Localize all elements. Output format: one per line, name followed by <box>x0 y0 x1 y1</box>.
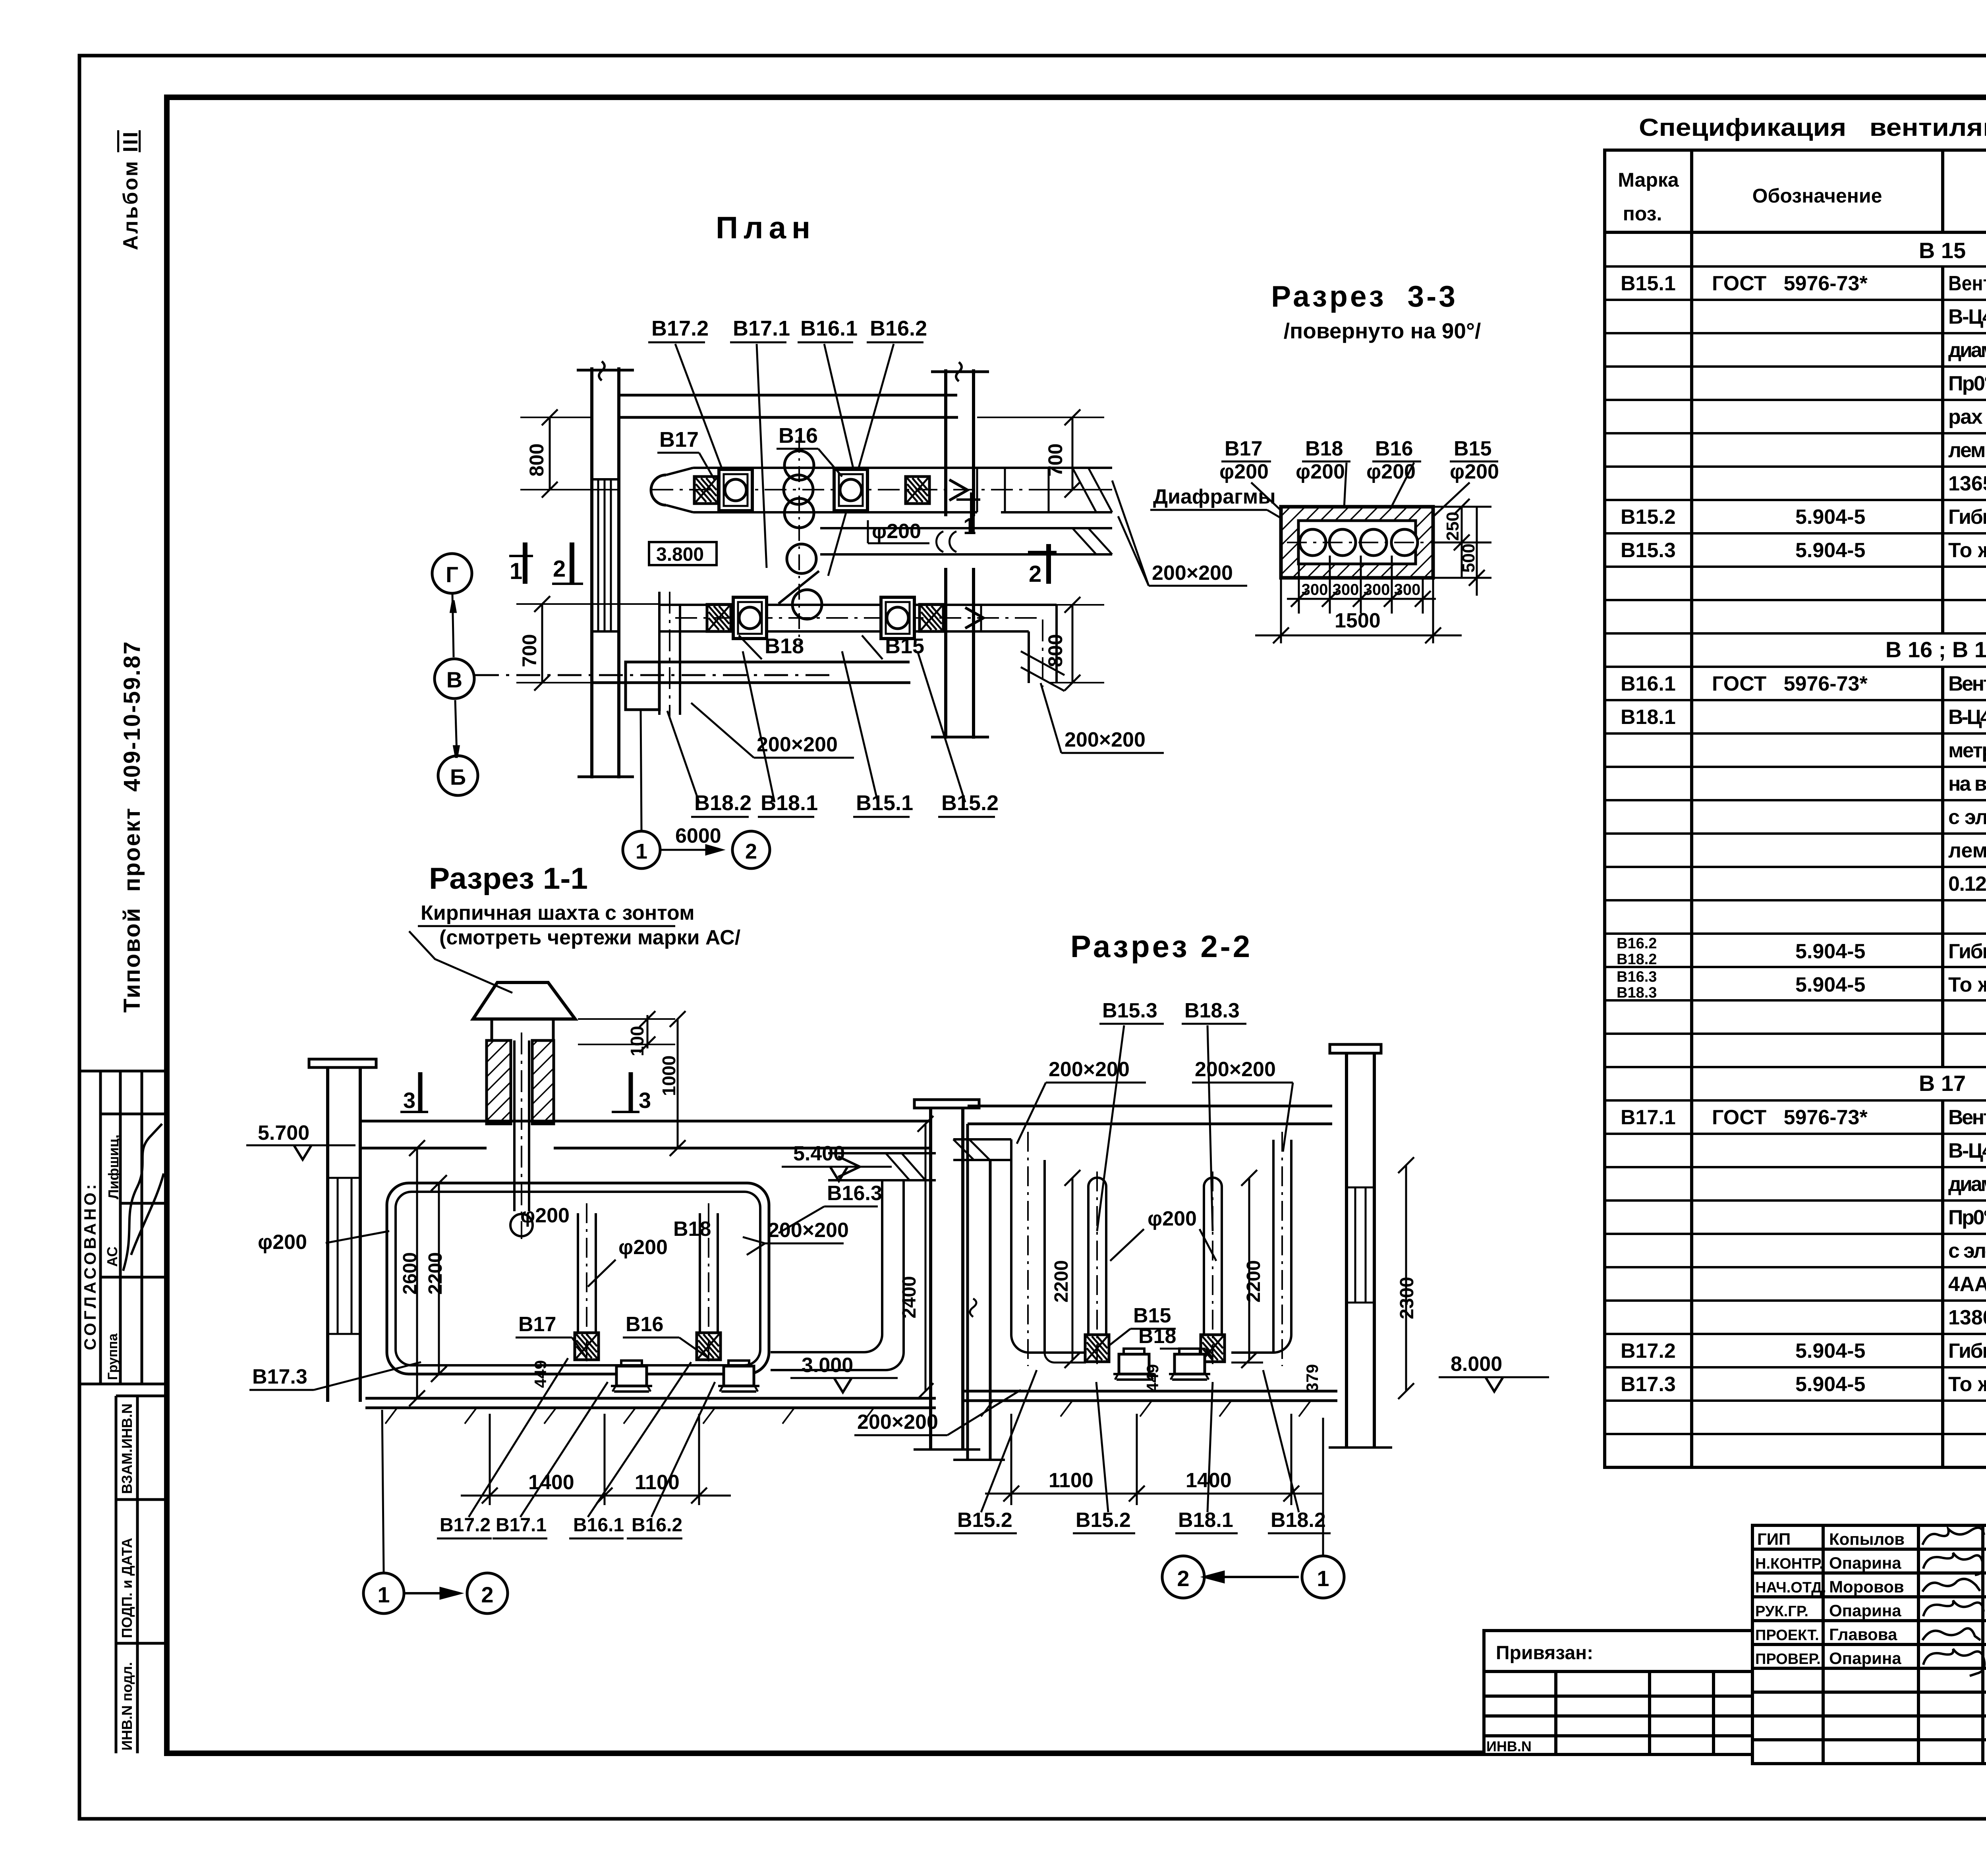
svg-text:φ200: φ200 <box>872 520 921 543</box>
svg-text:В16: В16 <box>1375 437 1413 460</box>
svg-text:НАЧ.ОТД.: НАЧ.ОТД. <box>1755 1579 1826 1596</box>
svg-text:3: 3 <box>403 1088 415 1113</box>
svg-text:Спецификация вентиляционных: Спецификация вентиляционных установок <box>1639 114 1986 141</box>
svg-text:Привязан:: Привязан: <box>1496 1642 1593 1664</box>
svg-text:В18.3: В18.3 <box>1184 999 1240 1022</box>
section 1-1 duct loop inner <box>396 1192 760 1365</box>
svg-text:В-Ц4-70-2.5-01А исп.1,диа-: В-Ц4-70-2.5-01А исп.1,диа- <box>1948 706 1986 729</box>
svg-text:Лифшиц,: Лифшиц, <box>105 1135 122 1199</box>
svg-text:ПРОЕКТ.: ПРОЕКТ. <box>1755 1627 1819 1644</box>
plan flexible insert B17.2 <box>694 477 718 504</box>
svg-text:В18.1: В18.1 <box>1178 1509 1233 1532</box>
svg-text:1: 1 <box>510 558 522 584</box>
plan flow arrow upper duct <box>949 480 968 500</box>
svg-text:В16: В16 <box>779 424 818 448</box>
section 2-2 dims 2400 2200 2200 2300 <box>918 1116 1414 1399</box>
section 2-2 right vertical duct <box>1231 1132 1291 1366</box>
plan fan B17 <box>719 469 752 511</box>
svg-text:рах с электродвигате-: рах с электродвигате- <box>1948 405 1986 428</box>
svg-text:Разрез 3-3: Разрез 3-3 <box>1271 280 1458 313</box>
svg-text:В18.1: В18.1 <box>1621 706 1676 729</box>
svg-text:250: 250 <box>1443 512 1462 541</box>
svg-text:СОГЛАСОВАНО:: СОГЛАСОВАНО: <box>81 1181 99 1350</box>
svg-text:В-Ц4-70-3.15-03А исп.1,: В-Ц4-70-3.15-03А исп.1, <box>1948 305 1986 328</box>
svg-text:В15: В15 <box>1454 437 1491 460</box>
svg-text:В16: В16 <box>626 1313 663 1336</box>
svg-text:Марка: Марка <box>1618 169 1679 191</box>
section 2-2 bottom labels <box>957 1509 1326 1532</box>
svg-text:Гибкая вставка ВВ17: Гибкая вставка ВВ17 <box>1948 940 1986 963</box>
svg-text:Альбом III: Альбом III <box>119 130 142 250</box>
section 3-3 dims 250 500 <box>1433 499 1491 596</box>
svg-text:Пр0° на виброизолято-: Пр0° на виброизолято- <box>1948 372 1986 395</box>
svg-text:Разрез 1-1: Разрез 1-1 <box>429 862 588 896</box>
svg-text:В15.3: В15.3 <box>1102 999 1157 1022</box>
plan labels B17 B16 B18 B15 <box>659 424 924 658</box>
plan flexible insert B18.2 <box>707 604 731 631</box>
svg-text:4АА63А4 0.25 кВт,: 4АА63А4 0.25 кВт, <box>1948 1273 1986 1296</box>
section 1-1 duct loop outer <box>387 1183 769 1374</box>
svg-text:φ200: φ200 <box>1296 460 1345 483</box>
section 2-2 candle duct right <box>1204 1172 1222 1366</box>
svg-text:300: 300 <box>1394 581 1421 598</box>
svg-text:В16.2: В16.2 <box>632 1515 682 1536</box>
section 1-1 fan motor right <box>718 1361 759 1392</box>
left stamp: СОГЛАСОВАНО box <box>81 1071 167 1384</box>
title block: Привязан box <box>1484 1631 1752 1754</box>
section 1-1 right exit duct <box>771 1153 936 1370</box>
svg-text:В 15: В 15 <box>1919 238 1966 263</box>
svg-text:В18: В18 <box>1138 1325 1176 1348</box>
svg-text:Кирпичная шахта с зонтом: Кирпичная шахта с зонтом <box>421 901 695 924</box>
svg-text:1100: 1100 <box>635 1471 680 1494</box>
specification table grid <box>1605 150 1986 1467</box>
specification table row lines <box>1605 266 1986 1434</box>
svg-text:В18.1: В18.1 <box>761 791 818 815</box>
svg-text:2200: 2200 <box>1243 1260 1264 1303</box>
svg-text:/повернуто на 90°/: /повернуто на 90°/ <box>1284 318 1481 343</box>
svg-text:В16.1: В16.1 <box>800 317 858 340</box>
plan duct centerlines <box>651 490 1112 719</box>
svg-text:В15.2: В15.2 <box>957 1509 1012 1532</box>
plan duct joint ticks <box>977 468 1049 631</box>
svg-text:2: 2 <box>481 1582 493 1607</box>
plan dim 800 left <box>520 409 620 498</box>
svg-text:В15.3: В15.3 <box>1621 539 1676 562</box>
svg-text:лем 4АА56А4: лем 4АА56А4 <box>1948 839 1986 862</box>
svg-text:(смотреть чертежи марки АС/: (смотреть чертежи марки АС/ <box>439 926 740 949</box>
svg-text:0.12 кВт, 1375 об/мин: 0.12 кВт, 1375 об/мин <box>1948 872 1986 896</box>
svg-text:В15.1: В15.1 <box>1621 272 1676 295</box>
svg-text:379: 379 <box>1303 1364 1321 1392</box>
section 1-1 right column <box>914 1100 980 1449</box>
section 1-1 umbrella cap <box>473 982 575 1019</box>
svg-text:метр колеса Дном, 10°: метр колеса Дном, 10° <box>1948 739 1986 762</box>
svg-text:лем 4АА63А4 0.37 кВт: лем 4АА63А4 0.37 кВт <box>1948 439 1986 462</box>
svg-text:ПРОВЕР.: ПРОВЕР. <box>1755 1651 1821 1668</box>
svg-text:В15.2: В15.2 <box>941 791 999 815</box>
section 2-2 floor <box>962 1391 1337 1417</box>
svg-text:ПОДП. и ДАТА: ПОДП. и ДАТА <box>119 1538 135 1638</box>
svg-text:1100: 1100 <box>1049 1469 1093 1492</box>
svg-text:РУК.ГР.: РУК.ГР. <box>1755 1603 1808 1620</box>
section 3-3 labels B17 B18 B16 B15 with f200 <box>1219 437 1499 483</box>
svg-text:В18.2: В18.2 <box>694 791 752 815</box>
svg-text:ГИП: ГИП <box>1757 1530 1791 1548</box>
svg-text:700: 700 <box>518 634 541 667</box>
title block: signatures <box>1922 1528 1984 1676</box>
svg-text:2: 2 <box>1177 1566 1189 1591</box>
svg-text:В 17: В 17 <box>1919 1071 1966 1096</box>
plan level box 3.800 <box>649 542 717 565</box>
svg-text:В17.2: В17.2 <box>440 1515 491 1536</box>
svg-text:В17: В17 <box>1225 437 1262 460</box>
svg-text:1: 1 <box>636 840 647 863</box>
svg-text:6000: 6000 <box>675 824 721 847</box>
svg-text:с электродвигате -: с электродвигате - <box>1948 806 1986 829</box>
svg-text:В18: В18 <box>765 634 804 658</box>
section 3-3 dims 300x4 <box>1287 556 1436 614</box>
svg-text:ИНВ.N подл.: ИНВ.N подл. <box>119 1662 135 1751</box>
svg-text:Гибкая вставка ВВ18: Гибкая вставка ВВ18 <box>1948 506 1986 529</box>
svg-text:Н.КОНТР.: Н.КОНТР. <box>1755 1556 1824 1572</box>
specification table header text <box>1618 164 1986 225</box>
plan flexible insert B16.2 <box>906 477 929 504</box>
svg-text:2: 2 <box>553 556 566 582</box>
section 2-2 left wall <box>953 1124 1005 1460</box>
svg-text:ГОСТ 5976-73*: ГОСТ 5976-73* <box>1712 272 1868 295</box>
section 3-3 dim 1500 <box>1255 578 1462 643</box>
plan flexible insert B15.2 <box>920 604 943 631</box>
svg-text:В15.1: В15.1 <box>856 791 913 815</box>
svg-text:449: 449 <box>1143 1364 1162 1392</box>
svg-text:1380 об/мин: 1380 об/мин <box>1948 1306 1986 1329</box>
svg-text:3.000: 3.000 <box>802 1354 853 1377</box>
svg-text:Вентилятор радиальный: Вентилятор радиальный <box>1948 1106 1986 1129</box>
plan lower duct run B18-B15 <box>659 592 1064 715</box>
leaders from labels down into drawing <box>675 344 731 492</box>
svg-text:1: 1 <box>1317 1566 1329 1591</box>
svg-text:800: 800 <box>1044 634 1066 667</box>
svg-text:100: 100 <box>627 1026 647 1056</box>
svg-text:В17.3: В17.3 <box>1621 1373 1676 1396</box>
section 1-1 brick shaft walls <box>487 1040 511 1124</box>
plan fan B16 <box>834 469 867 511</box>
svg-text:В 16 ; В 18: В 16 ; В 18 <box>1886 637 1986 662</box>
svg-text:φ200: φ200 <box>1366 460 1416 483</box>
section 2-2 ceiling slab <box>968 1106 1332 1124</box>
svg-text:План: План <box>716 210 816 245</box>
svg-text:диаметр колеса1.05Дном,: диаметр колеса1.05Дном, <box>1948 339 1986 362</box>
svg-text:5.904-5: 5.904-5 <box>1795 1339 1865 1363</box>
plan left column <box>577 361 634 778</box>
plan axis circles 1 2 with 6000 dim <box>623 711 770 869</box>
section 1-1 bottom dims 1400 1100 <box>461 1414 731 1505</box>
svg-text:300: 300 <box>1364 581 1390 598</box>
svg-text:Гибкая вставка ВВ18: Гибкая вставка ВВ18 <box>1948 1339 1986 1363</box>
svg-text:200×200: 200×200 <box>757 733 838 756</box>
svg-text:1: 1 <box>377 1582 390 1607</box>
section 2-2 right column <box>1329 1044 1392 1448</box>
section 3-3 duct openings circles <box>1287 529 1446 556</box>
specification table body text <box>1617 238 1986 1396</box>
svg-text:8.000: 8.000 <box>1451 1353 1502 1376</box>
svg-text:В16.1: В16.1 <box>1621 672 1676 695</box>
svg-text:В17.1: В17.1 <box>1621 1106 1676 1129</box>
section 1-1 fan motor left <box>611 1361 652 1392</box>
svg-text:Типовой проект 409-10-59.87: Типовой проект 409-10-59.87 <box>119 641 145 1013</box>
section 2-2 fan motors <box>1113 1349 1155 1380</box>
svg-text:449: 449 <box>531 1360 550 1388</box>
svg-text:ГОСТ 5976-73*: ГОСТ 5976-73* <box>1712 1106 1868 1129</box>
section 2-2 axis circles 2 1 <box>1162 1418 1344 1598</box>
svg-text:Опарина: Опарина <box>1829 1554 1901 1572</box>
svg-text:Пр0°на виброизоляторах: Пр0°на виброизоляторах <box>1948 1206 1986 1229</box>
svg-text:5.904-5: 5.904-5 <box>1795 539 1865 562</box>
plan dim 700 left <box>516 596 659 691</box>
svg-text:То жЕ ,: То жЕ , <box>1948 1373 1986 1396</box>
svg-text:200×200: 200×200 <box>1049 1058 1130 1081</box>
svg-text:Опарина: Опарина <box>1829 1649 1901 1668</box>
svg-text:200×200: 200×200 <box>857 1411 938 1434</box>
svg-text:φ200: φ200 <box>1148 1207 1197 1230</box>
svg-text:5.904-5: 5.904-5 <box>1795 973 1865 996</box>
plan fan B15 <box>881 597 914 639</box>
section 2-2 left wall duct entry <box>953 1139 1011 1160</box>
section 3-3 shaft box with hatched walls <box>1281 507 1433 578</box>
svg-text:с электродвигателем: с электродвигателем <box>1948 1239 1986 1262</box>
svg-text:Обозначение: Обозначение <box>1752 185 1882 207</box>
svg-text:2: 2 <box>1029 561 1041 587</box>
svg-text:В16.2: В16.2 <box>1617 935 1657 952</box>
svg-text:1500: 1500 <box>1335 609 1381 632</box>
svg-text:1365 об/мин: 1365 об/мин <box>1948 472 1986 495</box>
svg-text:2400: 2400 <box>899 1276 920 1318</box>
title block: personnel table grid <box>1752 1525 1986 1764</box>
svg-text:В18: В18 <box>1305 437 1343 460</box>
svg-text:В18.3: В18.3 <box>1617 984 1657 1001</box>
svg-text:ВЗАМ.ИНВ.N: ВЗАМ.ИНВ.N <box>119 1403 135 1494</box>
svg-text:700: 700 <box>1044 444 1066 477</box>
svg-text:Моровов: Моровов <box>1829 1577 1904 1596</box>
svg-text:5.904-5: 5.904-5 <box>1795 1373 1865 1396</box>
svg-text:φ200: φ200 <box>1450 460 1499 483</box>
svg-text:В16.2: В16.2 <box>870 317 927 340</box>
section 1-1 inner duct from shaft <box>510 1033 533 1239</box>
svg-text:Вентилятор радиальный: Вентилятор радиальный <box>1948 272 1986 295</box>
svg-text:АС: АС <box>104 1247 120 1267</box>
svg-text:Вентилятор радиальный: Вентилятор радиальный <box>1948 672 1986 695</box>
plan flow arrow lower duct <box>965 608 983 628</box>
svg-text:800: 800 <box>525 444 548 477</box>
svg-text:2300: 2300 <box>1397 1277 1418 1319</box>
svg-text:φ200: φ200 <box>520 1204 570 1227</box>
svg-text:ИНВ.N: ИНВ.N <box>1486 1738 1532 1754</box>
svg-text:ГОСТ 5976-73*: ГОСТ 5976-73* <box>1712 672 1868 695</box>
svg-text:В17: В17 <box>518 1313 556 1336</box>
svg-text:5.700: 5.700 <box>258 1121 309 1145</box>
section 1-1 inner vertical duct to fan B16 <box>700 1203 718 1366</box>
svg-text:В16.3: В16.3 <box>827 1182 882 1205</box>
svg-text:В17.2: В17.2 <box>1621 1339 1676 1363</box>
svg-text:Б: Б <box>450 764 466 789</box>
section 1-1 axis circles 1 2 <box>363 1410 508 1614</box>
svg-text:Диафрагмы: Диафрагмы <box>1153 485 1276 508</box>
svg-text:1400: 1400 <box>528 1471 574 1494</box>
section 2-2 left vertical duct <box>1011 1132 1086 1366</box>
svg-text:3: 3 <box>639 1088 651 1113</box>
plan upper duct run B17-B16 <box>651 468 1112 512</box>
svg-text:φ200: φ200 <box>258 1231 307 1254</box>
svg-text:500: 500 <box>1459 544 1478 573</box>
section 1-1 ceiling slab 5.700 <box>360 1121 931 1148</box>
svg-text:В17.1: В17.1 <box>496 1515 547 1536</box>
svg-text:То же ,: То же , <box>1948 973 1986 996</box>
svg-text:Разрез 2-2: Разрез 2-2 <box>1070 929 1252 964</box>
svg-text:200×200: 200×200 <box>1064 728 1146 751</box>
svg-text:300: 300 <box>1302 581 1328 598</box>
section 2-2 candle duct left <box>1088 1172 1106 1366</box>
left stamp: ВЗАМ.ИНВ.N cell <box>116 1396 167 1753</box>
plan dim 800 right <box>1049 597 1104 691</box>
svg-text:5.904-5: 5.904-5 <box>1795 506 1865 529</box>
svg-text:3.800: 3.800 <box>656 544 704 565</box>
svg-text:2200: 2200 <box>425 1252 446 1295</box>
svg-text:200×200: 200×200 <box>768 1219 849 1242</box>
section 2-2 bottom dims 1100 1400 <box>985 1414 1323 1505</box>
plan section marks 1 and 2 top <box>510 513 1041 587</box>
svg-text:В18: В18 <box>673 1218 711 1241</box>
svg-text:В15.2: В15.2 <box>1076 1509 1131 1532</box>
svg-text:300: 300 <box>1333 581 1359 598</box>
svg-text:В-Ц4-70-3.15-02А , исп.1,: В-Ц4-70-3.15-02А , исп.1, <box>1948 1139 1986 1162</box>
svg-text:5.904-5: 5.904-5 <box>1795 940 1865 963</box>
section 1-1 bottom labels <box>440 1515 682 1536</box>
svg-text:В: В <box>446 667 462 692</box>
plan dim 700 right <box>977 409 1104 498</box>
plan right column <box>931 362 989 739</box>
plan riser junction circle <box>784 475 813 504</box>
plan bottom labels B18.2 B18.1 B15.1 B15.2 <box>694 791 999 815</box>
svg-text:В16.1: В16.1 <box>573 1515 624 1536</box>
svg-text:В16.3: В16.3 <box>1617 969 1657 985</box>
svg-text:В18.2: В18.2 <box>1617 951 1657 968</box>
svg-text:Г: Г <box>446 562 458 587</box>
left stamp: signature squiggle <box>123 1124 164 1271</box>
svg-text:1000: 1000 <box>659 1056 679 1096</box>
section 1-1 dims 2600 2200 <box>409 1140 447 1406</box>
plan axis circles G V B <box>432 554 834 795</box>
plan top wall <box>620 395 958 417</box>
svg-text:Группа: Группа <box>105 1333 120 1380</box>
section 1-1 floor <box>365 1398 936 1424</box>
svg-text:поз.: поз. <box>1623 203 1662 225</box>
svg-text:В15: В15 <box>1133 1304 1171 1327</box>
svg-text:диаметр колеса 0.95Дном,: диаметр колеса 0.95Дном, <box>1948 1173 1986 1196</box>
section 1-1 dim 100 and 1000 <box>578 1011 686 1156</box>
plan fan B18 <box>733 597 767 639</box>
svg-text:200×200: 200×200 <box>1195 1058 1276 1081</box>
section 1-1 top duct connection <box>514 1148 675 1211</box>
svg-text:В17.3: В17.3 <box>252 1365 307 1388</box>
svg-text:2600: 2600 <box>400 1252 421 1295</box>
plan riser chain circles <box>779 437 822 643</box>
svg-text:2200: 2200 <box>1051 1260 1072 1303</box>
svg-text:φ200: φ200 <box>618 1236 668 1259</box>
svg-text:В17.1: В17.1 <box>733 317 790 340</box>
svg-text:В17.2: В17.2 <box>651 317 709 340</box>
svg-text:То же: То же <box>1948 539 1986 562</box>
svg-text:2: 2 <box>745 840 757 863</box>
title block: personnel labels <box>1755 1530 1905 1668</box>
section 1-1 inner vertical duct to fan B17 <box>578 1203 596 1366</box>
svg-text:Опарина: Опарина <box>1829 1601 1901 1620</box>
svg-text:В15.2: В15.2 <box>1621 506 1676 529</box>
svg-text:Копылов: Копылов <box>1829 1530 1905 1548</box>
svg-text:В17: В17 <box>659 428 699 452</box>
svg-text:на виброизоляторах: на виброизоляторах <box>1948 772 1986 795</box>
svg-text:Главова: Главова <box>1829 1625 1897 1644</box>
plan top leader labels B17.2 B17.1 B16.1 B16.2 <box>651 317 927 340</box>
plan B16 branch duct <box>820 528 1112 554</box>
svg-text:φ200: φ200 <box>1219 460 1269 483</box>
plan bottom wall <box>592 662 910 710</box>
svg-text:200×200: 200×200 <box>1152 562 1233 585</box>
section 1-1 left column <box>309 1059 376 1402</box>
